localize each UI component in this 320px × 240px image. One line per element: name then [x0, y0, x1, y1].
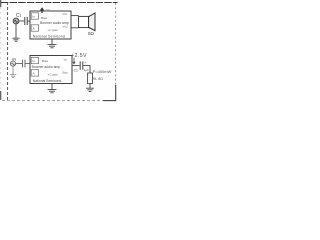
pin block B3 (inside U2, upper left)	[31, 57, 38, 63]
svg-text:National Semicond.: National Semicond.	[33, 79, 62, 83]
wire C3 to RL corner	[83, 66, 90, 73]
svg-text:In: In	[32, 15, 35, 19]
svg-text:A: A	[33, 72, 35, 76]
ground (below U1)	[48, 39, 57, 48]
arrow (+2.5V pointer)	[73, 58, 75, 64]
svg-text:National Semicond.: National Semicond.	[33, 35, 66, 39]
svg-text:In: In	[32, 59, 35, 63]
border right lower solid	[115, 85, 117, 101]
wire RL to ground	[89, 84, 91, 88]
wire U1 out2 to speaker	[71, 27, 79, 29]
wire C2 to U2	[25, 63, 30, 65]
source V1 (top input source circle)	[13, 18, 19, 24]
ground (below top source)	[12, 24, 19, 41]
speaker LS1 cone	[89, 13, 95, 31]
border bottom	[2, 100, 103, 102]
page edge left	[0, 0, 2, 100]
svg-text:A: A	[33, 27, 35, 31]
wire C1 to U1	[28, 20, 30, 22]
wire U1 out1 to speaker	[71, 15, 79, 17]
svg-text:Vo: Vo	[64, 57, 68, 61]
source V2 (bottom input source circle)	[10, 61, 15, 66]
op-amp U2 (bottom Boomer amplifier IC box)	[30, 56, 72, 84]
svg-text:Vo2: Vo2	[63, 24, 69, 28]
wire U2 out to C3	[72, 65, 80, 67]
svg-text:Boomer audio amp: Boomer audio amp	[32, 65, 61, 69]
svg-text:RL 8Ω: RL 8Ω	[93, 77, 104, 81]
op-amp U1 (top Boomer amplifier IC box)	[30, 11, 71, 39]
svg-text:1µF: 1µF	[84, 68, 90, 72]
ground (below bottom source)	[10, 66, 16, 78]
svg-text:C1: C1	[74, 68, 78, 72]
svg-text:+C gain: +C gain	[48, 72, 59, 76]
svg-text:Byp: Byp	[63, 71, 69, 75]
svg-text:Bias: Bias	[41, 16, 47, 20]
pin block B2 (inside U1, lower left)	[31, 25, 38, 31]
capacitor C1 (input coupling, top)	[25, 17, 27, 25]
wire V1 to C1	[19, 20, 24, 22]
wire V2 to C2	[15, 63, 22, 65]
svg-text:+: +	[84, 61, 86, 65]
sine mark in V2	[12, 63, 15, 65]
page edge left faint middle	[0, 7, 2, 91]
ground (below U2)	[48, 84, 57, 93]
border right	[115, 3, 117, 85]
pin block B1 (inside U1, upper left)	[31, 13, 38, 19]
capacitor C3 (output coupling, electrolytic)	[80, 61, 83, 69]
svg-text:Bias: Bias	[42, 59, 48, 63]
sine mark in V1	[14, 20, 17, 22]
ground (below RL)	[86, 88, 94, 91]
svg-text:Vo1: Vo1	[63, 12, 69, 16]
svg-text:+2.5V: +2.5V	[71, 53, 87, 59]
supply mark on U1 top edge	[41, 8, 44, 13]
capacitor C2 (input coupling, bottom)	[23, 60, 25, 68]
svg-text:5V: 5V	[46, 9, 51, 13]
border bottom right solid	[103, 100, 116, 102]
speaker LS1 body	[79, 16, 89, 27]
svg-text:8Ω: 8Ω	[88, 31, 95, 36]
pin block B4 (inside U2, lower left)	[31, 70, 38, 76]
border left	[7, 2, 9, 101]
border top	[1, 2, 118, 4]
svg-text:P=400mW: P=400mW	[93, 69, 112, 74]
resistor RL (load)	[88, 73, 93, 84]
svg-text:+C gain: +C gain	[48, 28, 59, 32]
